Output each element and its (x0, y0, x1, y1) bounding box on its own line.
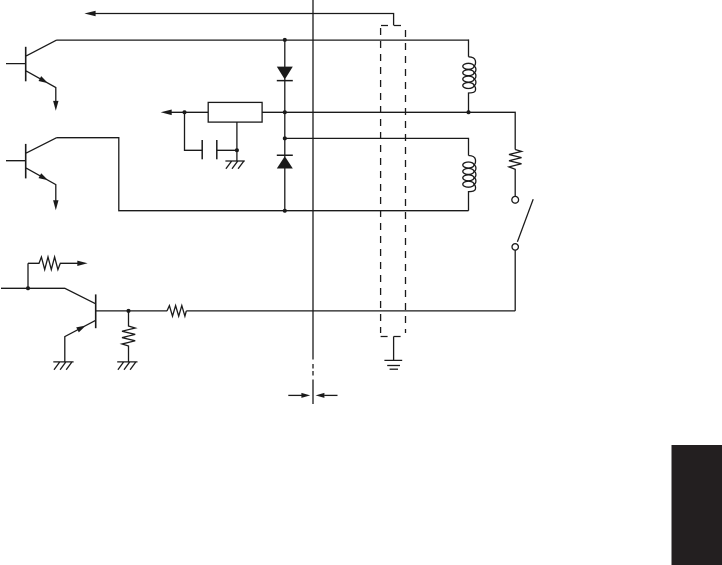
inductor L2 (463, 156, 476, 211)
node junction dot left lead (183, 110, 187, 114)
ground earth shield (384, 360, 402, 369)
node junction dot base rail / R4 (127, 309, 131, 313)
node junction dot W1/diode chain (283, 38, 287, 42)
switch S1 (512, 196, 533, 310)
diode D1 down (277, 67, 293, 81)
box component U1 (208, 102, 262, 122)
ground chassis under Q3 emitter (53, 362, 73, 370)
wire left input to Q3 (1, 288, 96, 304)
wire shield to ground (393, 337, 395, 361)
dimension arrows (288, 393, 337, 398)
resistor R6 with arrow top left (28, 257, 88, 288)
node junction dot coil L1 bottom (467, 110, 471, 114)
node junction dot diode chain / wire W3 (283, 136, 287, 140)
ground chassis under box (225, 161, 244, 169)
wire diode chain vertical (284, 40, 286, 211)
transistor Q3 (65, 294, 96, 362)
wire W3 to coil L2 top (285, 138, 469, 155)
black tab bottom right (672, 445, 722, 565)
transistor Q2 (6, 138, 59, 211)
inductor L1 (463, 57, 476, 113)
transistor Q1 (6, 40, 59, 111)
resistor R4 vertical (122, 311, 135, 362)
diode D2 up (277, 155, 293, 168)
node junction dot box lead / diode chain (283, 110, 287, 114)
wire R5 to switch corner (186, 310, 515, 312)
shield box dashed (381, 26, 406, 337)
node junction dot cap / box bottom lead (235, 148, 239, 152)
wire box bottom lead (236, 122, 238, 161)
resistor R5 horizontal (167, 306, 186, 317)
centerline vertical (312, 0, 314, 360)
wire mid rail diode chain to coil junction to switch branch (285, 112, 515, 149)
node junction dot lower rail / diode chain (283, 209, 287, 213)
wire W2 collector Q2 step down to lower rail (57, 138, 469, 211)
wire W1 collector Q1 to coil L1 top (57, 39, 469, 56)
capacitor C1 (185, 112, 237, 159)
wire top feedback line with left arrow (95, 14, 394, 26)
node junction dot input / R6 (26, 286, 30, 290)
wire box right lead to diode chain (262, 111, 285, 113)
wire base rail Q3 to switch (96, 310, 168, 312)
resistor R1 vertical right (509, 150, 522, 197)
wire box left lead with arrow (171, 111, 208, 113)
ground chassis under R4 (117, 362, 137, 370)
